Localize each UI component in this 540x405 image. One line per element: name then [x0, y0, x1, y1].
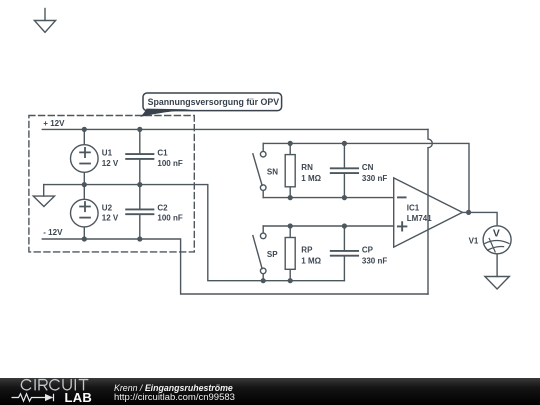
svg-text:RN: RN	[301, 163, 313, 172]
svg-text:CN: CN	[362, 163, 374, 172]
svg-text:12 V: 12 V	[102, 159, 119, 168]
resistor RN	[285, 143, 295, 197]
switch SP	[253, 226, 266, 281]
svg-text:100 nF: 100 nF	[157, 159, 182, 168]
junction (468.6,212.4)	[466, 210, 471, 215]
svg-text:1 MΩ: 1 MΩ	[301, 257, 321, 266]
svg-text:100 nF: 100 nF	[157, 214, 182, 223]
wire V1 to ground	[496, 254, 498, 277]
svg-text:LM741: LM741	[407, 214, 432, 223]
hidden ground (top-left)	[34, 9, 55, 33]
dashed supply box	[29, 116, 194, 252]
ground GND1 left	[33, 185, 54, 207]
op-amp IC1	[394, 178, 463, 247]
svg-text:330 nF: 330 nF	[362, 174, 387, 183]
capacitor CN	[331, 143, 358, 197]
capacitor C1	[126, 129, 153, 184]
junction (139.8,129.4)	[137, 127, 142, 132]
wire +12V top rail	[42, 128, 428, 130]
svg-text:- 12V: - 12V	[43, 228, 63, 237]
bottom CircuitLab bar	[0, 378, 540, 405]
svg-text:IC1: IC1	[407, 204, 420, 213]
voltage source U2	[71, 185, 99, 239]
annotation tail	[140, 109, 191, 117]
switch SN	[253, 143, 266, 197]
resistor RP	[285, 226, 295, 281]
wire ground mid rail	[44, 185, 345, 281]
svg-text:SP: SP	[267, 250, 278, 259]
wire non-inverting input row (SP top)	[263, 225, 394, 227]
svg-text:V: V	[493, 229, 500, 240]
junction (139.8,239)	[137, 236, 142, 241]
junction (84.3,239)	[82, 236, 87, 241]
junction (290.2,280.7)	[288, 278, 293, 283]
url circuitlab.com/cn99583	[114, 392, 235, 403]
wire feedback row (SN top)	[263, 143, 469, 212]
svg-text:SN: SN	[267, 168, 278, 177]
junction (344.4,143.4)	[342, 141, 347, 146]
junction (290.2,226)	[288, 223, 293, 228]
svg-text:V1: V1	[469, 236, 479, 245]
svg-text:RP: RP	[301, 246, 313, 255]
voltmeter V1	[483, 226, 511, 254]
annotation callout	[140, 93, 281, 117]
ground GND2 under V1	[485, 277, 509, 290]
svg-text:12 V: 12 V	[102, 214, 119, 223]
annotation bubble	[143, 93, 282, 111]
junction (290.2,197.6)	[288, 195, 293, 200]
junction (344.4,197.6)	[342, 195, 347, 200]
svg-text:U2: U2	[102, 203, 113, 212]
svg-text:C2: C2	[157, 203, 168, 212]
voltage source U1	[71, 129, 99, 184]
junction (84.3,129.4)	[82, 127, 87, 132]
svg-text:C1: C1	[157, 149, 168, 158]
capacitor C2	[126, 185, 153, 239]
junction (263.2,280.7)	[261, 278, 266, 283]
junction (139.8,184.6)	[137, 182, 142, 187]
wire output	[462, 212, 497, 225]
wire -12V rail	[42, 239, 428, 294]
wire inverting input row (SN bottom)	[263, 197, 394, 199]
capacitor CP	[331, 226, 358, 281]
svg-text:Spannungsversorgung für OPV: Spannungsversorgung für OPV	[148, 97, 280, 107]
junction (290.2,143.4)	[288, 141, 293, 146]
wire opamp power vertical with hop	[428, 129, 432, 294]
junction (84.3,184.6)	[82, 182, 87, 187]
CircuitLab logo	[0, 378, 112, 405]
svg-text:+ 12V: + 12V	[43, 119, 65, 128]
svg-text:U1: U1	[102, 149, 113, 158]
svg-text:330 nF: 330 nF	[362, 257, 387, 266]
credit line Krenn / Eingangsruhestroeme	[114, 383, 233, 393]
junction (344.4,226)	[342, 223, 347, 228]
svg-text:1 MΩ: 1 MΩ	[301, 174, 321, 183]
svg-text:CP: CP	[362, 246, 374, 255]
